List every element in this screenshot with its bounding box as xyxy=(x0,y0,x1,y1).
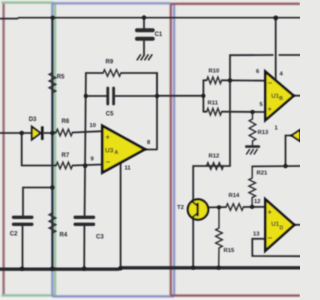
resistor R15 xyxy=(216,207,223,267)
capacitor C2 xyxy=(14,217,32,224)
wire R12 row to transistor collector xyxy=(193,166,230,200)
svg-text:R15: R15 xyxy=(224,248,236,254)
node bus pin11 xyxy=(119,266,123,270)
svg-text:D3: D3 xyxy=(29,117,37,123)
svg-text:R14: R14 xyxy=(229,193,241,199)
node C5 right xyxy=(155,94,159,98)
wire top rail xyxy=(0,17,300,20)
svg-text:T2: T2 xyxy=(177,205,185,211)
node C5 left xyxy=(84,94,88,98)
wire bottom supply bus xyxy=(0,268,300,269)
node base R15 xyxy=(217,205,221,209)
resistor R13 xyxy=(249,112,256,146)
op-amp U3A xyxy=(102,126,145,173)
diode D3 xyxy=(32,126,43,140)
wire base row xyxy=(209,206,266,209)
node diode anode xyxy=(20,131,24,135)
svg-text:R6: R6 xyxy=(62,119,70,125)
svg-text:+: + xyxy=(268,208,273,217)
wire C1 stub xyxy=(143,18,145,55)
wire U1D output xyxy=(294,224,300,226)
wire riser to U2 tip xyxy=(286,136,293,167)
wire U1D pin13 loop xyxy=(252,239,300,256)
wire R10 to U1B pin6 xyxy=(222,79,266,81)
op-amp U1B xyxy=(265,72,293,121)
red box border xyxy=(171,4,300,296)
capacitor C3 xyxy=(75,217,93,224)
resistor R6 xyxy=(56,129,73,136)
svg-text:C3: C3 xyxy=(96,235,104,241)
svg-text:R7: R7 xyxy=(62,153,70,159)
wire U3A output xyxy=(145,149,158,151)
node pin5 R13 xyxy=(250,110,254,114)
svg-text:R10: R10 xyxy=(209,68,221,74)
wire transistor emitter drop xyxy=(192,219,194,268)
wire left drop to R7 row xyxy=(22,133,56,166)
svg-text:−: − xyxy=(106,157,111,166)
maroon left edge line xyxy=(3,2,5,297)
resistor R4 xyxy=(49,213,56,233)
resistor R10 xyxy=(207,77,222,84)
blue box border xyxy=(52,3,174,296)
node feedback pin9 xyxy=(83,164,87,168)
wire C5 row xyxy=(86,95,157,97)
op-amp U1D xyxy=(265,199,294,250)
resistor R7 xyxy=(56,162,73,169)
wire feedback top row xyxy=(230,54,300,56)
node bus R15 xyxy=(217,266,221,270)
svg-text:R5: R5 xyxy=(57,75,65,81)
wire U3A out node riser xyxy=(156,73,158,96)
resistor R21 xyxy=(249,166,256,206)
svg-text:U1: U1 xyxy=(271,221,279,228)
resistor R14 xyxy=(226,204,244,211)
svg-text:R21: R21 xyxy=(257,171,269,177)
svg-text:C2: C2 xyxy=(10,232,18,238)
svg-text:+: + xyxy=(106,133,111,142)
resistor R12 xyxy=(207,163,224,170)
svg-text:U3: U3 xyxy=(105,147,114,154)
ground under C1 xyxy=(137,55,152,60)
svg-text:R4: R4 xyxy=(60,233,68,239)
node R21 row riser xyxy=(283,164,287,168)
resistor R11 xyxy=(207,108,222,115)
capacitor C5 xyxy=(108,88,114,104)
svg-text:R9: R9 xyxy=(106,60,114,66)
wire R6 to pin10 xyxy=(52,131,102,133)
svg-text:R13: R13 xyxy=(258,130,270,136)
svg-text:13: 13 xyxy=(253,231,260,237)
node bus C3 xyxy=(82,266,86,270)
svg-text:10: 10 xyxy=(90,123,96,129)
node rail-C1 xyxy=(142,15,146,19)
wire R11 to U1B pin5 xyxy=(222,111,266,113)
wire U1B output xyxy=(293,95,300,97)
wire R7 to pin9 xyxy=(73,165,103,166)
node R14 R21 pin12 xyxy=(250,205,254,209)
svg-text:−: − xyxy=(268,233,273,242)
svg-text:+: + xyxy=(268,104,273,113)
wire U1B power riser xyxy=(275,18,277,79)
svg-text:B: B xyxy=(279,96,283,102)
wire U1B feedback riser x230 xyxy=(229,55,231,166)
green box border xyxy=(2,3,56,296)
node diode cathode trunk xyxy=(50,131,54,135)
capacitor C1 xyxy=(137,30,153,39)
node trunk C2 branch xyxy=(50,185,54,189)
node rail-trunk xyxy=(51,16,55,20)
node bracket stem xyxy=(201,94,205,98)
svg-text:R11: R11 xyxy=(208,101,219,107)
svg-text:C1: C1 xyxy=(155,32,163,38)
wire bracket xyxy=(203,80,206,111)
wire C2 branch xyxy=(23,188,53,269)
node bus C2 xyxy=(20,267,24,271)
svg-text:D: D xyxy=(280,225,284,231)
node R10 feedback xyxy=(228,78,232,82)
op-amp U2 tip at right edge xyxy=(292,130,301,141)
wire trunk node x52 (rail to bus under blue line) xyxy=(51,18,53,269)
wire R9 top feedback xyxy=(86,73,157,149)
svg-text:11: 11 xyxy=(125,165,132,171)
wire U3A pin11 power drop xyxy=(120,163,122,269)
wire feedback riser / C3 riser xyxy=(84,73,86,268)
wire R21 top row to edge xyxy=(252,165,300,167)
node rail-U1B power xyxy=(273,16,278,21)
ground under R13 xyxy=(246,145,258,148)
node bus emitter xyxy=(191,266,195,270)
wire diode row xyxy=(0,132,32,134)
resistor R5 xyxy=(49,73,56,93)
node bus trunk xyxy=(50,267,54,271)
svg-text:−: − xyxy=(268,79,273,88)
transistor T2 xyxy=(188,199,208,219)
svg-text:R12: R12 xyxy=(209,154,221,160)
svg-text:C5: C5 xyxy=(106,112,114,118)
resistor R9 xyxy=(103,70,121,77)
svg-text:12: 12 xyxy=(254,199,260,205)
wire stem to R10/R11 bracket xyxy=(157,95,203,97)
